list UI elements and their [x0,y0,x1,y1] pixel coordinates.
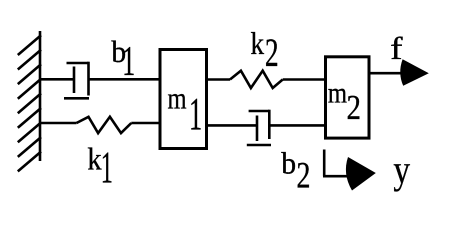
wire: wall to spring [40,122,77,125]
wire: spring to mass m1 [131,122,158,125]
wire: m1 to spring [208,78,230,81]
svg-text:k: k [87,142,101,177]
svg-text:1: 1 [189,89,202,141]
svg-text:y: y [393,148,410,193]
cup right [268,110,271,139]
zigzag [77,117,132,133]
label b1 [111,35,135,84]
cup bottom [64,97,89,100]
svg-text:1: 1 [122,38,135,85]
cup top [67,62,89,65]
output arrow y [323,150,376,191]
svg-text:f: f [390,31,403,67]
label m2 [328,76,361,126]
wire: m1 to piston rod [208,124,257,127]
svg-text:2: 2 [296,156,310,196]
spring K2 [208,71,324,88]
fixed wall [18,31,41,171]
wire: spring to m2 [283,78,324,81]
zigzag [230,71,283,88]
wire: wall to piston rod [40,78,74,81]
label m1 [168,81,203,141]
arrowhead [400,59,429,86]
wire: cup to mass m1 [89,78,159,81]
label k1 [87,142,113,192]
mass m1 [160,50,207,149]
damper B1 [40,62,159,99]
wire: m2 to arrowhead [371,72,405,75]
label k2 [250,27,278,75]
force arrow f [371,59,429,86]
piston plate [256,116,259,142]
wire: horizontal to arrowhead [323,175,349,178]
svg-text:m: m [168,81,187,115]
spring K1 [40,117,159,133]
label b2 [281,146,310,196]
piston plate [73,67,76,94]
cup bottom [247,144,271,147]
svg-text:1: 1 [101,143,113,193]
mass m2 [326,57,370,138]
svg-text:m: m [328,76,347,109]
wire: vertical from m2 bottom [323,150,326,177]
svg-text:2: 2 [346,88,360,126]
svg-text:2: 2 [265,31,279,75]
svg-text:b: b [281,146,296,180]
arrowhead [346,157,376,191]
svg-text:k: k [250,27,264,61]
wire: cup to m2 [269,124,324,127]
cup right [87,62,90,96]
damper B2 [208,110,324,145]
cup top [249,110,270,113]
